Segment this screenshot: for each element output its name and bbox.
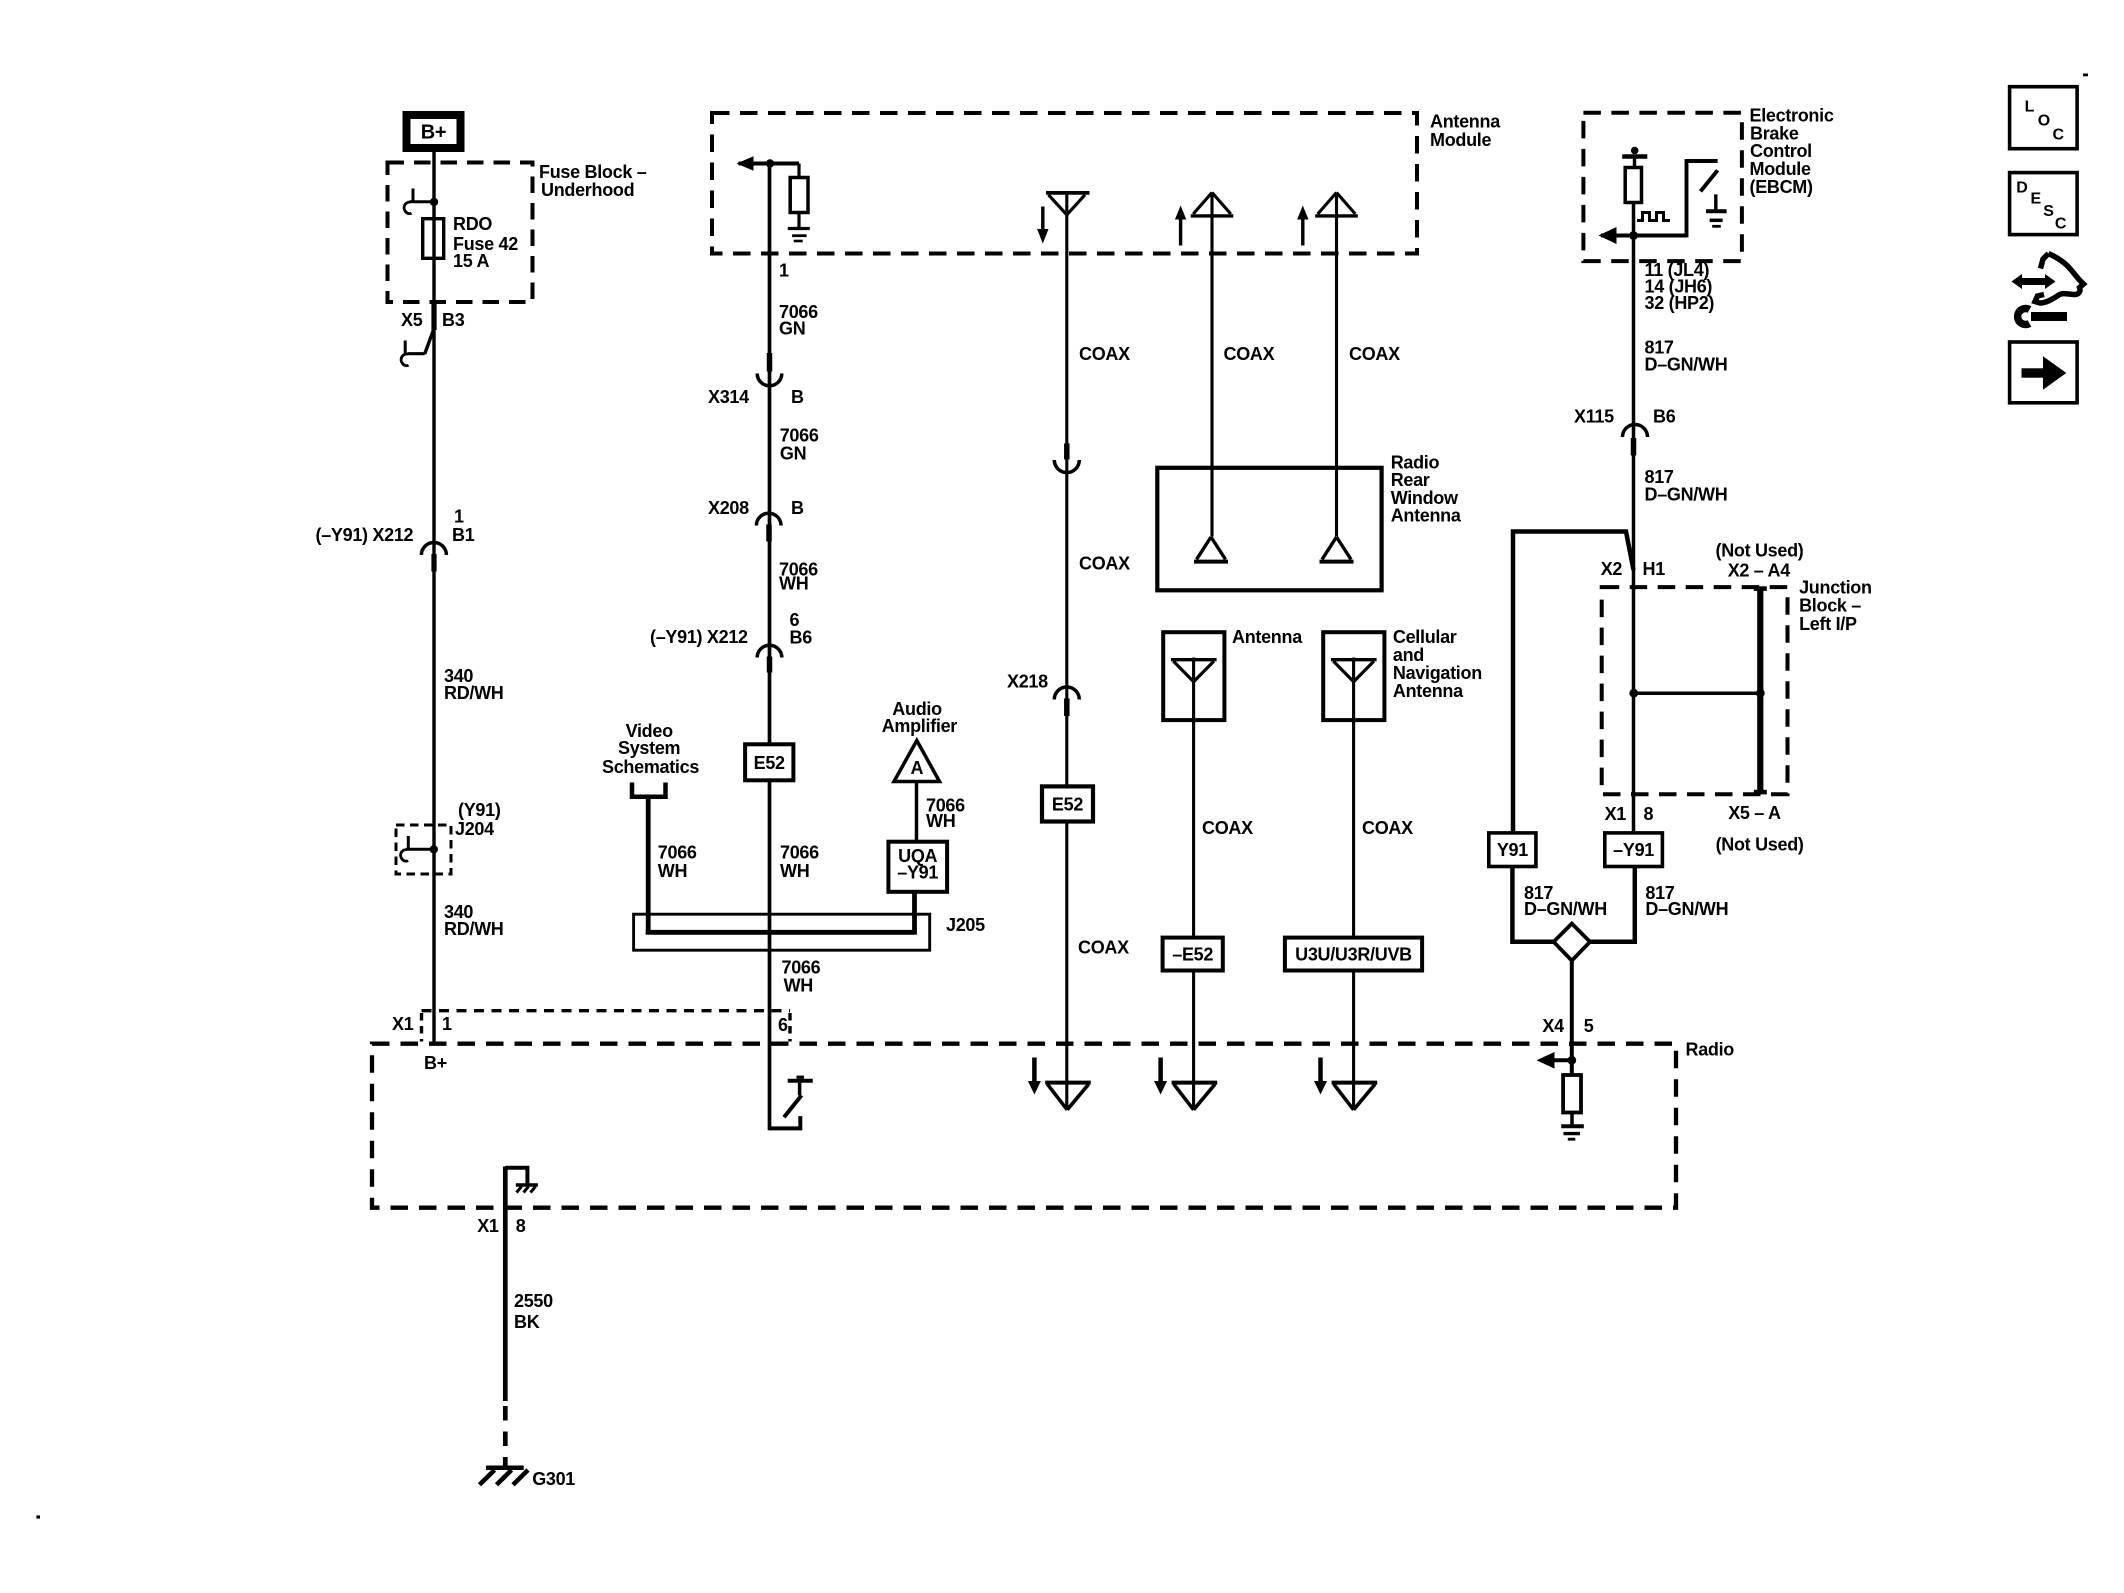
svg-text:Antenna: Antenna (1393, 681, 1464, 701)
wire: audio amplifier branch 7066 WH (915, 782, 919, 843)
wire: module internal horizontal to arrow (739, 162, 800, 166)
antenna symbol inside antenna box (1171, 658, 1217, 661)
svg-text:COAX: COAX (1079, 344, 1130, 364)
svg-text:1: 1 (442, 1014, 452, 1034)
svg-text:WH: WH (926, 811, 955, 831)
svg-text:G301: G301 (532, 1469, 575, 1489)
icon harness: wire outline squiggle (2035, 254, 2084, 304)
wire: B+ feed down left column (340 RD/WH) (432, 150, 435, 1044)
svg-text:GN: GN (779, 319, 805, 339)
antenna element symbol (rear window, right) (1320, 560, 1354, 564)
svg-text:X314: X314 (708, 387, 749, 407)
radio internal ground (X4-5) (1561, 1124, 1584, 1128)
svg-text:X2 – A4: X2 – A4 (1728, 560, 1791, 580)
ground G301 (486, 1465, 524, 1470)
antenna symbol 1 in module (receive) (1046, 191, 1090, 195)
svg-text:WH: WH (658, 861, 687, 881)
svg-text:Cellular: Cellular (1393, 627, 1457, 647)
antenna symbol 2 in module (transmit) (1191, 214, 1234, 217)
in-line connector X314 (767, 353, 773, 372)
svg-text:15 A: 15 A (453, 251, 489, 271)
splice diamond (817 junction) (1554, 924, 1590, 961)
wire: cellular antenna to radio (COAX) (1352, 658, 1355, 1110)
EBCM internal resistor (1625, 168, 1641, 203)
svg-text:D: D (2016, 180, 2027, 197)
svg-text:Block –: Block – (1799, 596, 1861, 616)
connector X5/B3 pass-through terminal (431, 303, 436, 330)
svg-text:1: 1 (779, 261, 789, 281)
wire: 817 D-GN/WH main, X115 to -Y91 (1632, 449, 1636, 834)
wire: EBCM internal horizontal to pin arrow (1601, 234, 1687, 238)
page mark bottom left (36, 1515, 40, 1518)
svg-text:RD/WH: RD/WH (444, 683, 504, 703)
svg-text:COAX: COAX (1224, 344, 1275, 364)
in-line connector X208 (756, 513, 781, 525)
wire: diamond to radio X4-5 (1570, 959, 1574, 1061)
wire: radio ground 2550 BK (503, 1167, 508, 1402)
svg-text:B+: B+ (424, 1053, 447, 1073)
svg-text:J205: J205 (946, 915, 985, 935)
video system schematics bracket (632, 783, 666, 797)
splice E52 label box (coax column) (1042, 786, 1093, 821)
svg-text:7066: 7066 (780, 843, 819, 863)
EBCM dashed box (1583, 113, 1742, 261)
down arrow at radio entry (col 3) (1318, 1058, 1323, 1083)
svg-text:(Not Used): (Not Used) (1716, 540, 1804, 560)
svg-text:RD/WH: RD/WH (444, 919, 504, 939)
svg-text:6: 6 (778, 1015, 788, 1035)
icon LOC box (2010, 87, 2078, 149)
svg-text:COAX: COAX (1349, 344, 1400, 364)
svg-text:(Y91): (Y91) (458, 800, 501, 820)
splice J204 terminal hook (407, 836, 410, 849)
module internal ground (788, 227, 810, 230)
svg-text:Antenna: Antenna (1232, 627, 1303, 647)
fuse input terminal hook (412, 189, 415, 202)
svg-text:E52: E52 (754, 753, 785, 773)
svg-text:B3: B3 (442, 310, 465, 330)
wire: J205 splice bus (646, 930, 916, 935)
coax termination triangle into radio (col 2) (1172, 1081, 1218, 1085)
junction block left I/P dashed box (1602, 587, 1788, 794)
switch blade (EBCM) (1701, 170, 1718, 191)
radio connector X1 dotted strip (422, 1009, 791, 1012)
wire: UQA branch down to J205 (912, 891, 917, 935)
page mark top right (2083, 74, 2088, 77)
svg-text:(–Y91) X212: (–Y91) X212 (316, 525, 414, 545)
svg-text:X218: X218 (1007, 672, 1048, 692)
svg-text:O: O (2038, 113, 2050, 130)
svg-text:Left I/P: Left I/P (1799, 614, 1857, 634)
svg-text:(EBCM): (EBCM) (1750, 177, 1813, 197)
svg-text:1: 1 (454, 507, 464, 527)
wire: radio X4 pin to resistor (1554, 1058, 1572, 1062)
svg-text:COAX: COAX (1078, 938, 1129, 958)
svg-text:J204: J204 (455, 819, 494, 839)
svg-text:X5 – A: X5 – A (1728, 803, 1781, 823)
icon harness: wrench (2031, 312, 2067, 321)
wire: antenna jack hook inside radio (middle column) (770, 1116, 801, 1128)
svg-text:8: 8 (516, 1216, 526, 1236)
EBCM junction dot (1629, 231, 1638, 240)
coax termination triangle into radio (col 3) (1332, 1081, 1378, 1085)
antenna module dashed box (712, 113, 1417, 254)
icon harness: double-headed arrow (2020, 278, 2049, 285)
EBCM antenna terminal bar (1622, 154, 1647, 159)
icon forward arrow box (2010, 342, 2078, 403)
fuse block underhood dashed box (388, 163, 533, 303)
svg-text:A: A (910, 758, 923, 778)
svg-text:Y91: Y91 (1497, 840, 1528, 860)
svg-text:B: B (791, 498, 804, 518)
svg-text:(Not Used): (Not Used) (1716, 834, 1804, 854)
icon DESC box (2010, 173, 2078, 235)
svg-text:8: 8 (1644, 804, 1654, 824)
svg-text:COAX: COAX (1079, 554, 1130, 574)
antenna element symbol (rear window, left) (1194, 560, 1228, 564)
svg-text:B: B (791, 387, 804, 407)
in-line connector X212 (left column) (421, 543, 446, 556)
splice pack J205 outline (634, 914, 930, 950)
svg-text:2550: 2550 (514, 1291, 553, 1311)
module junction dot (766, 159, 774, 167)
svg-text:U3U/U3R/UVB: U3U/U3R/UVB (1295, 945, 1412, 965)
junction block bus bar X2-A4 (not used) (1757, 588, 1763, 794)
svg-text:X1: X1 (1605, 804, 1627, 824)
svg-text:X2: X2 (1601, 559, 1623, 579)
wire: COAX column 1 (radio antenna coax) (1065, 192, 1068, 1110)
svg-text:Antenna: Antenna (1430, 112, 1501, 132)
U3U/U3R/UVB option box (1285, 938, 1422, 971)
svg-text:System: System (618, 738, 680, 758)
svg-text:Amplifier: Amplifier (882, 716, 958, 736)
svg-text:Module: Module (1750, 159, 1811, 179)
wire: 7066 GN/WH middle column from antenna module to radio (768, 164, 772, 1131)
radio dashed box (372, 1044, 1676, 1208)
EBCM internal ground (1714, 194, 1717, 210)
-E52 option box (1163, 938, 1223, 971)
splice E52 label box (middle column) (745, 744, 793, 780)
svg-text:–E52: –E52 (1172, 945, 1213, 965)
wire: Y91 to diamond splice (1512, 866, 1556, 942)
wire: antenna box to radio (COAX) (1192, 658, 1195, 1110)
svg-text:B1: B1 (452, 525, 475, 545)
svg-text:L: L (2025, 99, 2035, 116)
svg-text:B+: B+ (421, 122, 447, 144)
EBCM PWM signal glyph (1637, 213, 1670, 221)
svg-text:X4: X4 (1542, 1016, 1564, 1036)
svg-text:COAX: COAX (1362, 818, 1413, 838)
radio rear window antenna box (1157, 468, 1381, 591)
svg-text:WH: WH (780, 861, 809, 881)
module arrowhead (to radio) (737, 156, 754, 171)
svg-text:Schematics: Schematics (602, 757, 699, 777)
radio internal resistor (X4-5) (1563, 1075, 1581, 1113)
svg-text:7066: 7066 (780, 426, 819, 446)
radio chassis ground (X1-8) (516, 1183, 538, 1187)
audio amplifier triangle (894, 741, 940, 782)
coax termination triangle into radio (col 1) (1045, 1081, 1091, 1085)
svg-text:B6: B6 (790, 628, 813, 648)
svg-text:RDO: RDO (453, 214, 492, 234)
svg-text:X1: X1 (477, 1216, 499, 1236)
svg-text:(–Y91) X212: (–Y91) X212 (650, 627, 748, 647)
in-line connector X115 (1623, 425, 1648, 438)
svg-text:WH: WH (779, 574, 808, 594)
svg-text:D–GN/WH: D–GN/WH (1645, 899, 1728, 919)
cellular and navigation antenna box (1323, 632, 1384, 720)
svg-text:Antenna: Antenna (1391, 506, 1462, 526)
EBCM pin arrowhead (1599, 227, 1617, 244)
svg-text:B6: B6 (1653, 407, 1676, 427)
svg-text:BK: BK (514, 1312, 540, 1332)
antenna symbol inside cellular box (1331, 658, 1377, 661)
radio antenna jack symbol (middle column) (784, 1095, 802, 1117)
svg-text:Underhood: Underhood (541, 180, 634, 200)
wire: module internal resistor branch (797, 164, 800, 179)
svg-text:WH: WH (784, 976, 813, 996)
wire: EBCM resistor to pin 11 / X115 (1632, 202, 1636, 449)
antenna symbol 3 in module (transmit) (1315, 214, 1358, 217)
svg-text:32 (HP2): 32 (HP2) (1645, 293, 1715, 313)
signal down arrow beside antenna 1 (1041, 207, 1044, 231)
svg-text:X5: X5 (401, 310, 423, 330)
svg-text:E52: E52 (1052, 794, 1083, 814)
B+ power terminal box (407, 115, 461, 148)
junction block jumper dots (1629, 689, 1638, 698)
svg-text:Module: Module (1430, 130, 1491, 150)
svg-text:X115: X115 (1574, 407, 1614, 427)
svg-text:D–GN/WH: D–GN/WH (1645, 355, 1728, 375)
svg-text:5: 5 (1584, 1016, 1594, 1036)
svg-text:X208: X208 (708, 498, 749, 518)
Y91 option box (1489, 833, 1536, 867)
svg-text:Fuse Block –: Fuse Block – (539, 162, 647, 182)
svg-text:D–GN/WH: D–GN/WH (1645, 485, 1728, 505)
wire: rear window antenna coax right (1335, 193, 1338, 537)
svg-text:7066: 7066 (782, 958, 821, 978)
down arrow at radio entry (col 2) (1158, 1058, 1163, 1083)
module internal resistor (790, 178, 808, 213)
in-line connector X212 (middle column) (757, 645, 782, 657)
wire: rear window antenna coax left (1210, 193, 1213, 537)
signal up arrow beside antenna 2 (1179, 218, 1182, 246)
svg-text:COAX: COAX (1202, 818, 1253, 838)
module internal wire below resistor (797, 213, 800, 228)
icon forward arrow (2022, 368, 2045, 377)
svg-text:X1: X1 (392, 1014, 414, 1034)
wire: dashed segment to G301 (503, 1406, 508, 1466)
svg-text:–Y91: –Y91 (1613, 840, 1654, 860)
signal up arrow beside antenna 3 (1301, 218, 1304, 246)
-Y91 option box (1605, 833, 1663, 867)
UQA -Y91 option box (888, 842, 947, 892)
svg-text:Junction: Junction (1799, 578, 1872, 598)
svg-text:S: S (2043, 203, 2054, 220)
svg-text:–Y91: –Y91 (897, 863, 938, 883)
splice J204 dashed box (396, 825, 451, 874)
wire: junction block internal jumper H1 to X2-A4 (1634, 691, 1761, 695)
wire: EBCM terminal stub (1633, 157, 1636, 168)
svg-text:D–GN/WH: D–GN/WH (1524, 899, 1607, 919)
wire: branch to Y91 (horizontal + jog) (1513, 532, 1634, 835)
fuse RDO 42 15A symbol (423, 219, 444, 259)
in-line connector X218 (1054, 687, 1079, 700)
antenna box (amplified antenna) (1163, 632, 1224, 720)
svg-text:H1: H1 (1643, 559, 1666, 579)
down arrow at radio entry (col 1) (1032, 1058, 1037, 1083)
in-line coax connector (unlabeled) (1064, 444, 1070, 460)
svg-text:C: C (2055, 216, 2067, 233)
svg-text:GN: GN (780, 444, 806, 464)
radio X4-5 junction dot and arrowhead (1567, 1056, 1576, 1065)
wire: video schematics branch 7066 WH (646, 797, 651, 935)
wire: EBCM switch right leg (1687, 161, 1718, 237)
svg-text:C: C (2053, 127, 2065, 144)
wire: -Y91 to diamond splice (1588, 866, 1635, 942)
svg-text:E: E (2031, 191, 2042, 208)
svg-text:7066: 7066 (658, 843, 697, 863)
svg-text:Radio: Radio (1686, 1039, 1735, 1059)
